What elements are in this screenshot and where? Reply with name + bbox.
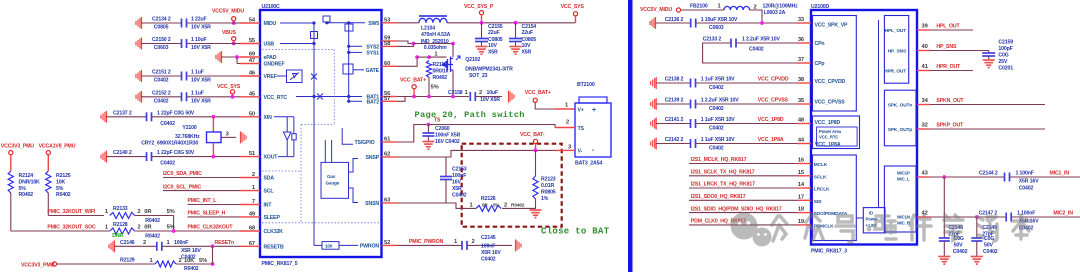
inner block: I2S interface	[813, 155, 857, 241]
svg-text:C2136 2: C2136 2	[665, 17, 684, 23]
svg-text:V+: V+	[578, 108, 584, 114]
svg-text:10V X5R: 10V X5R	[191, 78, 211, 84]
svg-text:68: 68	[249, 226, 256, 232]
svg-text:VCC_BAT-: VCC_BAT-	[520, 132, 545, 138]
svg-text:47: 47	[249, 58, 255, 64]
svg-text:32.768KHz: 32.768KHz	[175, 134, 200, 140]
internal vertical rail	[878, 20, 880, 207]
inner block: headphone out	[884, 16, 908, 84]
svg-text:SOT_23: SOT_23	[469, 73, 488, 79]
svg-text:10V: 10V	[522, 43, 531, 49]
svg-text:MIC1N: MIC1N	[897, 215, 910, 220]
svg-text:MIDU: MIDU	[264, 21, 277, 27]
svg-text:X5R 16V: X5R 16V	[1019, 179, 1039, 185]
capacitor C2153 between SNSP/SNSN	[445, 157, 447, 177]
svg-text:GNDREF: GNDREF	[264, 62, 285, 68]
capacitor C2150 row (pin 55)	[136, 38, 142, 50]
svg-text:C0201: C0201	[998, 66, 1013, 72]
svg-text:1 22uF: 1 22uF	[191, 17, 207, 23]
svg-text:VCC_1P8D: VCC_1P8D	[758, 117, 784, 123]
capacitor C2141 row (pin 48)	[651, 118, 657, 130]
svg-text:C0402: C0402	[953, 249, 968, 255]
svg-text:C2151 2: C2151 2	[152, 70, 171, 76]
svg-text:C2133 2: C2133 2	[703, 37, 722, 43]
svg-text:C2140 2: C2140 2	[113, 150, 132, 156]
svg-text:C0402: C0402	[709, 106, 724, 112]
svg-text:SNSN: SNSN	[365, 201, 379, 207]
svg-text:HPR_OUT: HPR_OUT	[884, 69, 906, 75]
svg-text:35: 35	[798, 98, 805, 104]
svg-text:C2158: C2158	[448, 90, 463, 96]
svg-text:I2S1_SDIO_HQ/PDM_SDIO_HQ_RK817: I2S1_SDIO_HQ/PDM_SDIO_HQ_RK817	[691, 206, 782, 212]
svg-text:R0805: R0805	[541, 190, 556, 196]
page divider	[628, 0, 633, 272]
svg-text:C2144 2: C2144 2	[979, 171, 998, 177]
svg-text:2: 2	[179, 258, 182, 264]
svg-text:R2123: R2123	[541, 177, 556, 183]
SYS2/SYS1 pin merge (pins 59,58)	[397, 41, 414, 44]
svg-text:63: 63	[384, 198, 391, 204]
watermark logo and text	[731, 213, 772, 247]
svg-text:1 1uF X5R 10V: 1 1uF X5R 10V	[701, 117, 735, 123]
svg-text:C0402: C0402	[709, 126, 724, 132]
svg-text:VCC_RTC: VCC_RTC	[264, 95, 288, 101]
svg-text:C0402: C0402	[749, 46, 764, 52]
svg-text:10V X5R: 10V X5R	[191, 98, 211, 104]
svg-text:5%: 5%	[431, 85, 439, 91]
sense resistor R2123	[535, 150, 537, 176]
svg-text:C2137 2: C2137 2	[113, 110, 132, 116]
svg-text:TS: TS	[578, 126, 585, 132]
svg-text:R2125: R2125	[56, 173, 71, 179]
svg-text:SPK_OUTn: SPK_OUTn	[888, 103, 913, 109]
svg-text:PMIC_RK817_3: PMIC_RK817_3	[811, 249, 847, 255]
svg-text:VCC_CPVSS: VCC_CPVSS	[815, 100, 846, 106]
resistor R2124	[10, 155, 12, 171]
inner block: 1P8 power area	[813, 116, 860, 149]
svg-text:C0402: C0402	[983, 249, 998, 255]
svg-text:10V: 10V	[488, 43, 497, 49]
SNSN wire (pin 63)	[397, 203, 476, 208]
VCC_RTC / BAT internal wire	[296, 96, 362, 98]
svg-text:C2138 2: C2138 2	[665, 77, 684, 83]
svg-text:2: 2	[137, 225, 140, 231]
svg-text:5%: 5%	[19, 186, 27, 192]
svg-text:VCC3V3_PMU: VCC3V3_PMU	[1, 144, 34, 150]
svg-text:X5R: X5R	[452, 186, 462, 192]
svg-text:R0402: R0402	[145, 233, 160, 239]
svg-text:50V: 50V	[984, 242, 993, 248]
svg-text:C2159: C2159	[998, 40, 1013, 46]
net MIC1_IN (pin 43) with capacitor C2144	[930, 176, 1005, 178]
svg-text:SDA: SDA	[264, 176, 275, 182]
svg-text:R0402: R0402	[19, 192, 34, 198]
svg-text:1 10uF: 1 10uF	[191, 37, 207, 43]
svg-text:I2S1_SCLK_TX_HQ_RK817: I2S1_SCLK_TX_HQ_RK817	[691, 170, 755, 176]
svg-text:7: 7	[252, 199, 255, 205]
svg-text:49: 49	[249, 211, 256, 217]
svg-text:R2126: R2126	[481, 196, 496, 202]
IC U2100C (PMIC RK817)	[260, 10, 382, 257]
svg-text:16V C0402: 16V C0402	[435, 139, 460, 145]
svg-text:V-: V-	[578, 149, 583, 155]
svg-text:SNSP: SNSP	[365, 155, 379, 161]
capacitor C2140 row (pin 51 XOUT)	[101, 151, 107, 163]
svg-text:C2153: C2153	[452, 167, 467, 173]
svg-text:5%: 5%	[56, 186, 64, 192]
svg-text:R0402: R0402	[56, 192, 71, 198]
svg-text:X5R 16V: X5R 16V	[481, 250, 501, 256]
svg-text:C0402: C0402	[709, 146, 724, 152]
svg-text:VCC_SYS: VCC_SYS	[217, 84, 241, 90]
svg-text:Q2102: Q2102	[465, 57, 480, 63]
svg-text:I2S1_MCLK_HQ_RK817: I2S1_MCLK_HQ_RK817	[691, 157, 747, 163]
svg-text:VCC_SYS: VCC_SYS	[561, 4, 585, 10]
svg-text:VCC_1P8A: VCC_1P8A	[758, 137, 784, 143]
svg-text:22uF: 22uF	[522, 30, 534, 36]
svg-text:U2100C: U2100C	[262, 4, 281, 10]
svg-text:C0402: C0402	[481, 257, 496, 263]
svg-text:100nF: 100nF	[174, 240, 188, 246]
svg-text:100nF: 100nF	[452, 173, 466, 179]
U2100C internal MID bus wire	[280, 22, 314, 24]
svg-text:HPL_OUT: HPL_OUT	[885, 28, 907, 34]
svg-text:R0402: R0402	[184, 266, 199, 272]
svg-text:C2060: C2060	[435, 126, 450, 132]
svg-text:C0805: C0805	[488, 37, 503, 43]
svg-text:2: 2	[479, 90, 482, 96]
SYS1/SYS2 internal wires	[348, 23, 350, 102]
svg-text:0R0/1k: 0R0/1k	[433, 68, 449, 74]
ePAD / GNDREF wires (pins 69,47)	[216, 51, 222, 63]
svg-text:2: 2	[754, 4, 757, 10]
svg-text:54: 54	[249, 18, 256, 24]
svg-text:50V: 50V	[954, 242, 963, 248]
SW5 internal wire and FET symbols	[325, 22, 365, 24]
svg-text:C0603: C0603	[709, 25, 724, 31]
capacitor C2138 row (pin 38)	[651, 77, 657, 89]
svg-text:MIC1_IN: MIC1_IN	[1050, 171, 1070, 177]
svg-text:PMIC_32KOUT_WIFI: PMIC_32KOUT_WIFI	[47, 209, 95, 215]
svg-text:18: 18	[798, 207, 805, 213]
BAT2 internal wire	[349, 100, 362, 102]
svg-text:67: 67	[249, 241, 255, 247]
svg-text:X5R: X5R	[488, 50, 498, 56]
svg-text:1 2.2uF X5R 10V: 1 2.2uF X5R 10V	[742, 37, 781, 43]
svg-text:60: 60	[384, 61, 390, 67]
svg-text:VCC_SYS_P: VCC_SYS_P	[464, 4, 494, 10]
svg-text:VCC5V_MIDU: VCC5V_MIDU	[212, 9, 244, 15]
svg-text:C2142 2: C2142 2	[665, 137, 684, 143]
svg-text:62: 62	[384, 152, 390, 158]
internal 100 ohm box to PWRON	[314, 244, 322, 246]
svg-text:CRY2_6900X1R40X1R30: CRY2_6900X1R40X1R30	[141, 140, 198, 146]
svg-text:L0603 2A: L0603 2A	[764, 10, 786, 16]
svg-text:52: 52	[384, 240, 390, 246]
svg-text:16: 16	[798, 158, 805, 164]
svg-text:BT2100: BT2100	[577, 82, 595, 88]
svg-text:PMIC_32KOUT_SOC: PMIC_32KOUT_SOC	[47, 225, 96, 231]
svg-text:Power Area: Power Area	[819, 129, 842, 134]
svg-text:C2150 2: C2150 2	[152, 37, 171, 43]
svg-text:1 10uF X5R 10V: 1 10uF X5R 10V	[701, 17, 738, 23]
capacitor C2155	[481, 23, 483, 39]
svg-text:0R: 0R	[482, 202, 488, 207]
svg-text:57: 57	[384, 96, 390, 102]
svg-text:C0402: C0402	[1019, 185, 1034, 191]
svg-text:HP_SNS: HP_SNS	[888, 49, 907, 55]
svg-text:Page 20, Path switch: Page 20, Path switch	[415, 110, 525, 120]
svg-text:SYS2: SYS2	[366, 44, 379, 50]
svg-text:MIC_L: MIC_L	[897, 177, 910, 182]
svg-text:15: 15	[798, 170, 805, 176]
capacitor C2154	[515, 23, 517, 39]
svg-text:VCC_BAT+: VCC_BAT+	[400, 77, 426, 83]
svg-text:SPKN_OUT: SPKN_OUT	[936, 98, 964, 104]
svg-text:25V: 25V	[998, 59, 1007, 65]
svg-text:R0402: R0402	[511, 202, 525, 208]
svg-text:2: 2	[566, 120, 569, 126]
svg-text:55: 55	[249, 38, 256, 44]
svg-text:SCLK: SCLK	[814, 174, 827, 180]
svg-text:61: 61	[384, 137, 391, 143]
svg-text:HPL_OUT: HPL_OUT	[936, 24, 960, 30]
capacitor C2152 row (pin 45)	[136, 91, 142, 103]
svg-text:R2129: R2129	[120, 258, 135, 264]
svg-text:U2100D: U2100D	[811, 4, 830, 10]
svg-text:44: 44	[798, 138, 805, 144]
svg-text:SYS1: SYS1	[366, 50, 379, 56]
svg-text:1 1uF X5R 10V: 1 1uF X5R 10V	[701, 77, 735, 83]
svg-text:16V: 16V	[452, 180, 461, 186]
svg-text:32: 32	[922, 123, 928, 129]
svg-text:10K: 10K	[56, 179, 65, 185]
svg-text:ePAD: ePAD	[264, 55, 277, 61]
svg-text:I2C0_SCL_PMIC: I2C0_SCL_PMIC	[163, 184, 202, 190]
svg-text:BAT3_2A54: BAT3_2A54	[575, 161, 602, 167]
gate pull resistor R2119	[397, 57, 417, 66]
svg-text:VCCA1V8_PMU: VCCA1V8_PMU	[39, 144, 76, 150]
svg-text:X5R: X5R	[522, 50, 532, 56]
svg-text:C0G: C0G	[998, 53, 1008, 59]
inner block: ID power	[863, 208, 885, 233]
internal bowtie valve on MID bus	[311, 74, 317, 80]
svg-text:Gas: Gas	[327, 174, 336, 179]
svg-text:SPK_OUTp: SPK_OUTp	[888, 127, 913, 133]
U2100D left pin stubs	[797, 22, 811, 24]
capacitor C2134 row (pin 54)	[136, 17, 142, 29]
capacitor C2137 row (pin 50 XIN)	[101, 111, 107, 123]
svg-text:Gauge: Gauge	[326, 181, 340, 186]
svg-text:39: 39	[922, 24, 929, 30]
svg-text:1 22pF C0G 50V: 1 22pF C0G 50V	[157, 150, 195, 156]
svg-text:PMIC_RK817_5: PMIC_RK817_5	[262, 261, 298, 267]
svg-text:34: 34	[922, 98, 929, 104]
battery sense dashed box	[462, 144, 562, 227]
capacitor C2151 row (pin 46)	[136, 70, 142, 82]
svg-text:R2128: R2128	[113, 222, 128, 228]
U2100C right pin stubs	[382, 22, 398, 24]
svg-text:36: 36	[798, 37, 805, 43]
svg-text:2: 2	[252, 172, 255, 178]
svg-text:HP_SNS: HP_SNS	[936, 44, 957, 50]
svg-text:CLK32K: CLK32K	[264, 229, 284, 235]
svg-text:C0805: C0805	[522, 37, 537, 43]
capacitor C2146 row (pin 67 RESETB)	[109, 240, 115, 252]
svg-text:R0402: R0402	[145, 218, 160, 224]
svg-text:XIN: XIN	[264, 115, 273, 121]
svg-text:C0402: C0402	[160, 161, 175, 167]
svg-text:PMIC_INT_L: PMIC_INT_L	[188, 198, 218, 204]
svg-text:VCC_CPVSS: VCC_CPVSS	[758, 98, 789, 104]
svg-text:C0402: C0402	[452, 193, 467, 199]
svg-text:10V X5R: 10V X5R	[191, 25, 211, 31]
battery V- wire with SNSP (pin 62)	[397, 150, 555, 157]
svg-text:100nF X5R: 100nF X5R	[435, 133, 461, 139]
svg-text:DNR/10K: DNR/10K	[19, 179, 41, 185]
svg-text:1 1uF: 1 1uF	[191, 90, 204, 96]
svg-text:MIC1P: MIC1P	[897, 171, 910, 176]
svg-text:VCC_RTC: VCC_RTC	[819, 135, 838, 140]
svg-text:14: 14	[798, 182, 805, 188]
svg-text:40: 40	[922, 44, 928, 50]
svg-text:37: 37	[798, 57, 804, 63]
net MIC2_IN (pin 42) with capacitor C2147	[930, 216, 1006, 218]
svg-text:VCC5V_MIDU: VCC5V_MIDU	[640, 7, 672, 13]
svg-text:C0603: C0603	[154, 45, 169, 51]
svg-text:17: 17	[798, 194, 804, 200]
svg-text:10uF: 10uF	[487, 90, 499, 96]
svg-text:C0402: C0402	[154, 78, 169, 84]
GATE internal FET symbol	[343, 64, 353, 74]
IC U2100D outer box	[811, 10, 917, 245]
svg-text:46: 46	[249, 71, 256, 77]
svg-text:0R: 0R	[144, 209, 152, 215]
svg-text:R2119: R2119	[433, 62, 448, 68]
svg-text:48: 48	[798, 118, 805, 124]
svg-text:33: 33	[798, 17, 805, 23]
svg-text:CPp: CPp	[815, 61, 825, 67]
XIN/XOUT crystal driver	[274, 116, 294, 118]
svg-text:PMIC_SLEEP_H: PMIC_SLEEP_H	[188, 211, 226, 217]
svg-text:C0805: C0805	[154, 25, 169, 31]
svg-text:I2S1_SDO0_HQ_RK817: I2S1_SDO0_HQ_RK817	[691, 194, 746, 200]
svg-text:5%: 5%	[493, 202, 499, 207]
svg-text:2: 2	[504, 202, 507, 208]
resistor R2125	[47, 155, 49, 171]
svg-text:2: 2	[472, 239, 475, 245]
MOSFET Q2102 path switch	[452, 44, 454, 58]
svg-text:C2134 2: C2134 2	[152, 17, 171, 23]
svg-text:C2139 2: C2139 2	[665, 98, 684, 104]
svg-text:C0402: C0402	[154, 98, 169, 104]
crystal Y2100	[212, 117, 214, 132]
svg-text:VBUS: VBUS	[222, 30, 237, 36]
svg-text:10V X5R: 10V X5R	[480, 97, 500, 103]
svg-text:HPR_OUT: HPR_OUT	[936, 64, 961, 70]
svg-text:VCC_CPVDD: VCC_CPVDD	[815, 79, 846, 85]
svg-text:C0402: C0402	[160, 121, 175, 127]
svg-text:MCLK: MCLK	[814, 162, 828, 168]
inner block: mic inputs	[884, 166, 916, 232]
svg-text:41: 41	[922, 64, 929, 70]
svg-text:C0402: C0402	[709, 85, 724, 91]
svg-text:5%: 5%	[167, 209, 175, 215]
capacitor C2149 to ground	[976, 217, 978, 238]
inner block: charge pump / supplies	[813, 16, 857, 112]
svg-text:PWRON: PWRON	[360, 243, 380, 249]
svg-text:10K: 10K	[184, 258, 195, 264]
svg-text:R2133: R2133	[113, 206, 128, 212]
U2100D right pin stubs	[917, 29, 930, 31]
svg-text:C2141 2: C2141 2	[665, 117, 684, 123]
svg-text:VCC_SPK_VP: VCC_SPK_VP	[815, 23, 848, 29]
svg-text:0.035ohm: 0.035ohm	[424, 45, 447, 51]
svg-text:+: +	[592, 107, 596, 114]
svg-text:100pF: 100pF	[998, 46, 1012, 52]
svg-text:SW5: SW5	[368, 21, 379, 27]
svg-text:1 100nF: 1 100nF	[1016, 171, 1034, 177]
svg-text:SPKP_OUT: SPKP_OUT	[936, 123, 964, 129]
svg-text:USB: USB	[264, 42, 275, 48]
svg-text:DNB/WPM2341-3/TR: DNB/WPM2341-3/TR	[465, 66, 513, 72]
svg-text:1 22pF C0G 50V: 1 22pF C0G 50V	[157, 110, 195, 116]
Gas Gauge block	[321, 162, 349, 198]
svg-text:0R: 0R	[144, 225, 152, 231]
svg-text:43: 43	[922, 171, 929, 177]
svg-text:51: 51	[249, 151, 256, 157]
svg-text:Y2100: Y2100	[182, 125, 197, 131]
svg-text:SDI: SDI	[814, 199, 822, 205]
internal switch symbol on MID bus	[311, 32, 318, 39]
svg-text:INT: INT	[264, 203, 273, 209]
svg-text:ID: ID	[869, 211, 873, 216]
svg-text:C2155: C2155	[488, 24, 503, 30]
BAT1/BAT2 pin merge (pins 56,57)	[397, 97, 405, 102]
svg-text:I2S1_LRCK_TX_HQ_RK817: I2S1_LRCK_TX_HQ_RK817	[691, 182, 755, 188]
capacitor C2136 row (pin 33)	[650, 17, 656, 29]
svg-text:X5R 16V: X5R 16V	[181, 248, 201, 254]
svg-text:2: 2	[143, 240, 146, 246]
svg-text:BAT2: BAT2	[366, 99, 379, 105]
svg-text:58: 58	[384, 41, 391, 47]
svg-text:1 1uF: 1 1uF	[191, 70, 204, 76]
svg-text:53: 53	[384, 17, 391, 23]
svg-text:R0402: R0402	[433, 75, 448, 81]
U2100C internal USB wire	[280, 43, 314, 45]
svg-text:C2146: C2146	[120, 240, 135, 246]
inner block: speaker out	[884, 90, 916, 146]
svg-text:69: 69	[249, 52, 256, 58]
capacitor C2148 to ground	[943, 177, 945, 238]
svg-text:VCC_1P8D: VCC_1P8D	[815, 120, 841, 126]
svg-text:38: 38	[798, 77, 805, 83]
svg-text:DNR: DNR	[112, 233, 123, 239]
svg-text:0.01R: 0.01R	[541, 183, 554, 189]
svg-text:1%: 1%	[541, 196, 549, 202]
svg-text:2: 2	[137, 209, 140, 215]
capacitor C2142 row (pin 44)	[651, 138, 657, 150]
svg-text:VCC_CPVDD: VCC_CPVDD	[758, 77, 789, 83]
svg-text:XOUT: XOUT	[264, 155, 279, 161]
svg-text:C2154: C2154	[522, 24, 537, 30]
TS sense wire (pin 61) with capacitor C2060	[397, 125, 555, 143]
svg-text:Close to BAT: Close to BAT	[541, 227, 610, 237]
svg-text:CPn: CPn	[815, 41, 825, 47]
svg-text:VREF: VREF	[264, 74, 277, 80]
U2100C left pin stubs and names	[240, 22, 260, 24]
svg-text:100: 100	[325, 243, 333, 248]
